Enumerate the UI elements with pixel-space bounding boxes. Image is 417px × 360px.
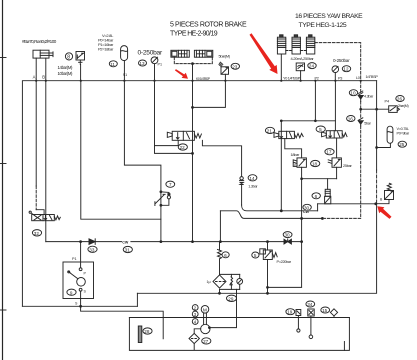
main pressure bus line P — [22, 81, 376, 307]
rotor brake manifold valve left — [171, 50, 189, 57]
svg-text:4.3bar: 4.3bar — [364, 94, 374, 98]
svg-text:18: 18 — [312, 162, 318, 167]
yaw pilot dashed line to L0 — [315, 43, 361, 81]
gauge P1 link line — [155, 81, 194, 155]
svg-text:P=220bar: P=220bar — [277, 260, 292, 264]
svg-text:11: 11 — [110, 62, 115, 67]
item 13 balloon — [139, 60, 147, 66]
svg-text:P0=9bar: P0=9bar — [397, 132, 410, 136]
relief drain header — [300, 167, 336, 287]
svg-text:19: 19 — [287, 310, 293, 315]
throttle outlet — [160, 205, 162, 241]
item 9 balloon (hand pump) — [67, 289, 76, 295]
item 23 balloon — [231, 63, 239, 69]
item 2 balloon — [192, 305, 198, 311]
item 12 balloon — [342, 66, 350, 72]
svg-text:P: P — [84, 272, 87, 276]
svg-text:0-250bar: 0-250bar — [138, 49, 163, 56]
item 4 balloon — [192, 319, 198, 325]
item 14 balloon — [248, 175, 257, 181]
suction strainer 28 — [138, 326, 142, 343]
svg-text:12: 12 — [343, 67, 349, 72]
svg-text:18bar: 18bar — [291, 152, 300, 157]
svg-text:CW: CW — [122, 240, 129, 244]
svg-text:34: 34 — [307, 302, 313, 307]
pressure switch item 8 — [76, 52, 85, 65]
main pump — [201, 324, 211, 333]
svg-text:P1: P1 — [72, 257, 77, 261]
item 25 balloon — [398, 141, 406, 147]
svg-text:29: 29 — [228, 296, 234, 301]
item 30 balloon (ball valve) — [283, 232, 292, 238]
yaw brake caliper 2 — [292, 35, 300, 54]
svg-text:15: 15 — [322, 308, 328, 313]
svg-text:5bar: 5bar — [364, 122, 371, 126]
svg-text:V1: V1 — [294, 163, 298, 167]
yaw brake link dashes — [286, 50, 307, 52]
svg-text:30: 30 — [285, 233, 291, 238]
port labels on bus — [283, 75, 378, 81]
pump discharge to filter — [209, 289, 236, 327]
return header upper — [242, 204, 318, 212]
item 32 balloon — [32, 230, 41, 236]
pump suction strainer 27 — [189, 329, 201, 350]
svg-text:P3: P3 — [338, 77, 342, 81]
svg-text:P4: P4 — [385, 100, 390, 104]
svg-text:23: 23 — [232, 64, 238, 69]
wire B drop — [45, 81, 47, 242]
check valve 1.3bar — [240, 177, 244, 205]
valve 22 left port line — [155, 140, 179, 145]
hand pump supply header CW line — [46, 240, 303, 243]
item 7 balloon — [166, 181, 175, 187]
svg-text:1µ: 1µ — [207, 280, 211, 284]
item 5 balloon — [316, 126, 325, 132]
check valve 33 — [89, 239, 95, 245]
svg-text:#Bø70,Rø40,Ø#100: #Bø70,Rø40,Ø#100 — [22, 39, 57, 44]
relief valve V2 25bar — [328, 158, 352, 168]
item 18 balloon — [311, 160, 320, 166]
svg-text:L0: L0 — [356, 76, 360, 80]
flexible hose 6 — [325, 179, 331, 204]
svg-text:10: 10 — [350, 91, 356, 96]
node dot manifold center — [191, 62, 194, 65]
hose 6 to filter — [218, 242, 222, 275]
svg-text:27: 27 — [203, 339, 209, 344]
relief valve 23 — [219, 62, 229, 80]
wire P3 drop — [334, 81, 336, 131]
air breather 15 — [330, 309, 337, 318]
item 33 balloon — [88, 246, 97, 252]
red arrow 1 — [175, 69, 188, 79]
svg-text:17: 17 — [326, 150, 332, 155]
pressure gauge P3 — [332, 66, 339, 81]
pressure switch drop line — [80, 65, 82, 81]
accumulator S1 — [121, 46, 128, 81]
solenoid valve 22 — [167, 131, 201, 140]
oil tank — [129, 318, 349, 351]
svg-text:2bar(M): 2bar(M) — [398, 104, 409, 108]
item 10 balloon — [349, 90, 357, 96]
item 17 balloon — [325, 149, 334, 155]
svg-text:16 PIECES YAW BRAKE: 16 PIECES YAW BRAKE — [295, 13, 363, 20]
svg-text:6: 6 — [224, 253, 227, 258]
svg-text:7: 7 — [169, 182, 172, 187]
svg-text:33: 33 — [89, 247, 95, 252]
item 34 balloon — [306, 301, 315, 307]
svg-text:K0 1/4"BSP: K0 1/4"BSP — [196, 77, 211, 81]
svg-text:28: 28 — [144, 329, 150, 334]
item 11 balloon — [109, 61, 117, 67]
valve 22 right port line — [202, 140, 241, 176]
title: yaw brake note — [295, 13, 363, 29]
check valve 4.3bar — [358, 91, 374, 102]
hand pump unit box — [63, 242, 94, 307]
svg-text:TYPE HEG-1-125: TYPE HEG-1-125 — [299, 22, 347, 29]
svg-text:4-20mA,250bar: 4-20mA,250bar — [291, 56, 315, 61]
wire P2 drop — [314, 81, 316, 121]
svg-text:P2=18bar: P2=18bar — [98, 47, 114, 52]
svg-text:5bar(M): 5bar(M) — [219, 54, 231, 59]
main return riser right — [137, 81, 376, 294]
return filter 29 assembly — [207, 274, 243, 293]
svg-text:A: A — [33, 75, 36, 80]
manifold subplate dashed bracket — [174, 57, 212, 63]
svg-text:P2: P2 — [315, 77, 319, 81]
svg-text:14: 14 — [249, 176, 255, 181]
red arrow 3 — [377, 206, 391, 219]
svg-text:5: 5 — [254, 253, 257, 258]
pressure switch drop long — [81, 81, 161, 220]
drain drop to tank line — [219, 211, 221, 242]
valve 21 through line — [280, 139, 282, 211]
yaw brake caliper 3 — [306, 35, 314, 54]
svg-text:P1: P1 — [158, 63, 163, 67]
pressure switch settings text — [58, 65, 74, 76]
pressure gauge P1 — [151, 57, 162, 81]
relief drain loop — [266, 286, 302, 295]
item 28 balloon — [143, 328, 152, 334]
item 6 balloon (hose) — [312, 193, 320, 199]
filter 29 junction dot — [218, 292, 221, 295]
item 5 balloon (relief) — [252, 252, 259, 258]
svg-text:6: 6 — [315, 194, 318, 199]
item 26 balloon — [396, 96, 404, 102]
pressure switch branch line — [359, 108, 388, 111]
hand valve 32 — [29, 211, 60, 221]
item 27 balloon — [202, 338, 211, 344]
svg-text:25bar: 25bar — [343, 163, 352, 168]
item 31 balloon — [123, 246, 132, 252]
svg-text:B: B — [42, 75, 45, 80]
check valve 5bar — [358, 118, 371, 126]
cylinder port line B — [42, 58, 46, 81]
svg-text:S1: S1 — [123, 73, 128, 77]
rotor brake manifold valve right — [194, 50, 212, 57]
svg-text:10bar(M): 10bar(M) — [58, 71, 74, 76]
svg-text:26: 26 — [397, 97, 403, 102]
item 8 balloon — [65, 53, 72, 61]
pilot dashed line L0 lower — [324, 81, 361, 219]
svg-text:25: 25 — [399, 142, 405, 147]
item 21 balloon — [265, 127, 274, 133]
svg-text:5: 5 — [319, 127, 322, 132]
brake release valve B — [377, 183, 394, 203]
relief valve 220bar — [260, 242, 292, 294]
item 29 balloon — [227, 295, 237, 301]
drain header right — [318, 202, 378, 205]
pressure transducer 24 — [296, 63, 304, 81]
temperature level sensor 34 — [308, 309, 314, 339]
solenoid valve 5 — [322, 131, 347, 138]
solenoid valve 21 — [274, 121, 303, 139]
accumulator 25 spec text — [397, 127, 410, 136]
item 3 balloon — [192, 311, 198, 317]
title: rotor brake note — [170, 22, 247, 38]
item 19 balloon — [286, 309, 295, 315]
item 16 balloon — [347, 116, 355, 122]
hand pump suction line B — [81, 306, 164, 339]
cylinder port line A — [33, 58, 37, 81]
level switch 19 — [296, 310, 301, 333]
suction return step — [136, 293, 138, 306]
ball valve 30 — [284, 239, 291, 244]
accumulator S1 spec text — [98, 33, 114, 52]
svg-text:S: S — [75, 302, 78, 306]
item 24 balloon — [308, 63, 316, 69]
svg-text:M: M — [203, 307, 207, 313]
svg-text:B: B — [380, 198, 383, 202]
relief 23 drain link — [191, 81, 225, 109]
relief valve V1 18bar — [291, 152, 307, 167]
svg-text:1.3bar: 1.3bar — [248, 185, 258, 189]
svg-text:24: 24 — [309, 64, 315, 69]
pressure switch P4 — [389, 104, 409, 112]
svg-text:5 PIECES ROTOR BRAKE: 5 PIECES ROTOR BRAKE — [170, 22, 247, 29]
item 6 balloon (hose 2) — [222, 252, 229, 258]
svg-text:9: 9 — [70, 290, 73, 295]
svg-text:13: 13 — [139, 61, 145, 66]
red arrow 2 — [250, 33, 278, 74]
electric motor M — [201, 306, 209, 325]
svg-text:Y0 1/4"BSP: Y0 1/4"BSP — [283, 77, 301, 81]
item 22 balloon — [178, 144, 187, 150]
valve 5 outlet — [336, 138, 338, 158]
rotor brake cylinder — [33, 50, 53, 58]
svg-text:14bar(M): 14bar(M) — [58, 65, 74, 70]
yaw header line — [280, 119, 335, 122]
throttle check valve 7 — [155, 190, 171, 206]
manifold outlet stem K0 — [192, 64, 194, 81]
svg-text:8: 8 — [67, 54, 70, 60]
item 15 balloon — [321, 307, 330, 313]
accumulator S1 feed to throttle — [124, 81, 160, 192]
pump drain line A — [22, 305, 137, 308]
yaw brake caliper 1 — [277, 35, 285, 81]
svg-text:1/4"BSP: 1/4"BSP — [366, 75, 379, 79]
item 30 balloon (coupler CW) — [303, 204, 311, 210]
svg-text:0-250bar: 0-250bar — [333, 58, 350, 63]
coupler CW 31 — [122, 240, 130, 245]
bus junction dots — [35, 80, 362, 82]
valve 21 branch to V1 — [285, 139, 302, 158]
svg-text:TYPE HE-2-90/19: TYPE HE-2-90/19 — [170, 31, 218, 38]
svg-text:S: S — [84, 290, 87, 294]
svg-text:32: 32 — [34, 231, 40, 236]
wire A pilot drop — [36, 81, 44, 215]
coupler CW label — [303, 210, 311, 214]
drawing frame left border — [0, 0, 6, 360]
svg-text:22: 22 — [180, 145, 186, 150]
wire K0 drop — [192, 81, 194, 242]
accumulator 25 — [375, 126, 393, 149]
return header lower with crossover — [220, 211, 323, 220]
svg-text:16: 16 — [348, 117, 354, 122]
svg-text:21: 21 — [267, 128, 273, 133]
svg-text:V=0.75L: V=0.75L — [397, 127, 409, 131]
svg-text:31: 31 — [125, 248, 131, 253]
